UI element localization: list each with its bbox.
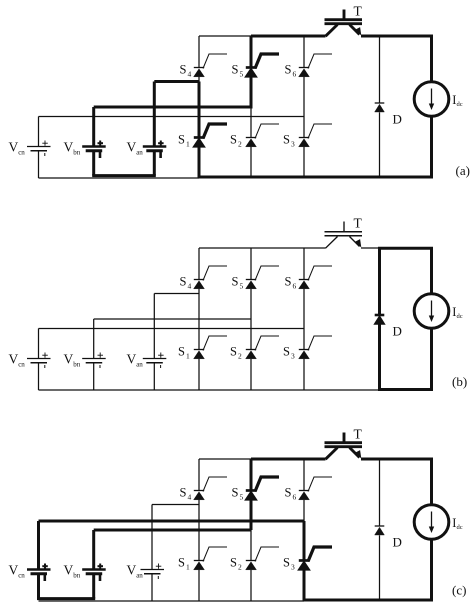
svg-text:2: 2 [238, 563, 242, 572]
svg-text:S: S [180, 275, 187, 289]
svg-text:T: T [354, 4, 363, 19]
svg-text:V: V [9, 352, 19, 367]
svg-text:(b): (b) [452, 374, 467, 389]
svg-text:6: 6 [293, 70, 297, 79]
svg-text:(c): (c) [452, 583, 466, 598]
svg-text:6: 6 [293, 282, 297, 291]
svg-text:2: 2 [238, 140, 242, 149]
svg-text:S: S [178, 133, 185, 147]
svg-text:S: S [230, 556, 237, 570]
svg-text:an: an [136, 361, 143, 369]
svg-text:S: S [232, 275, 239, 289]
svg-text:V: V [64, 563, 74, 578]
svg-text:cn: cn [18, 572, 25, 580]
svg-text:5: 5 [240, 493, 244, 502]
svg-text:S: S [178, 345, 185, 359]
svg-text:S: S [232, 63, 239, 77]
svg-text:bn: bn [73, 572, 81, 580]
svg-text:cn: cn [18, 149, 25, 157]
svg-text:S: S [180, 486, 187, 500]
svg-text:D: D [393, 535, 402, 550]
svg-text:S: S [285, 486, 292, 500]
svg-text:dc: dc [457, 524, 463, 531]
svg-text:2: 2 [238, 352, 242, 361]
svg-text:V: V [127, 563, 137, 578]
svg-text:S: S [232, 486, 239, 500]
svg-text:S: S [283, 556, 290, 570]
svg-text:cn: cn [18, 361, 25, 369]
svg-text:an: an [136, 149, 143, 157]
svg-text:V: V [64, 352, 74, 367]
svg-text:1: 1 [186, 352, 190, 361]
svg-text:3: 3 [291, 563, 295, 572]
svg-text:T: T [354, 427, 363, 442]
svg-text:bn: bn [73, 361, 81, 369]
svg-text:4: 4 [188, 282, 192, 291]
svg-text:S: S [180, 63, 187, 77]
svg-text:dc: dc [457, 313, 463, 320]
svg-text:V: V [64, 140, 74, 155]
svg-text:3: 3 [291, 352, 295, 361]
svg-text:6: 6 [293, 493, 297, 502]
svg-text:S: S [285, 63, 292, 77]
svg-text:1: 1 [186, 563, 190, 572]
svg-text:V: V [127, 352, 137, 367]
svg-text:1: 1 [186, 140, 190, 149]
svg-text:V: V [9, 563, 19, 578]
svg-text:S: S [285, 275, 292, 289]
svg-text:D: D [393, 324, 402, 339]
svg-text:D: D [393, 112, 402, 127]
svg-text:(a): (a) [456, 163, 470, 178]
svg-text:T: T [354, 216, 363, 231]
svg-text:S: S [283, 345, 290, 359]
svg-text:V: V [127, 140, 137, 155]
svg-text:an: an [136, 572, 143, 580]
svg-text:S: S [230, 345, 237, 359]
svg-text:4: 4 [188, 70, 192, 79]
svg-text:4: 4 [188, 493, 192, 502]
svg-text:3: 3 [291, 140, 295, 149]
svg-text:dc: dc [457, 101, 463, 108]
svg-text:S: S [230, 133, 237, 147]
svg-text:S: S [178, 556, 185, 570]
svg-text:bn: bn [73, 149, 81, 157]
svg-text:5: 5 [240, 70, 244, 79]
svg-text:5: 5 [240, 282, 244, 291]
svg-text:V: V [9, 140, 19, 155]
svg-text:S: S [283, 133, 290, 147]
